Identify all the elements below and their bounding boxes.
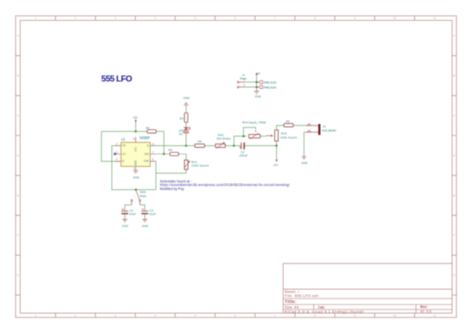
- capacitor C2 (series): [239, 143, 248, 158]
- wire RV3 top to R5: [277, 125, 306, 130]
- jack J2: [306, 124, 337, 135]
- svg-text:R5: R5: [286, 119, 290, 123]
- resistor R4: [195, 140, 205, 148]
- junction node TR/THR at SW1: [135, 189, 137, 191]
- title block: [283, 263, 452, 313]
- wire TR loop: [112, 146, 156, 190]
- connector J1: [237, 81, 245, 87]
- left/right ticks: [16, 56, 21, 295]
- junction node RV3 bottom (+9V): [275, 145, 277, 147]
- junction node OUT at C2/RV2: [233, 145, 235, 147]
- svg-text:D: D: [17, 154, 19, 157]
- wire vertical power rail: [256, 76, 258, 91]
- svg-text:NE555P: NE555P: [140, 136, 151, 140]
- svg-text:GND: GND: [255, 95, 261, 99]
- power +9V (555 rail): [133, 115, 138, 131]
- trim pot RV2: [216, 133, 232, 148]
- junction node DIS (R1/R2/pin7): [163, 153, 165, 155]
- svg-text:+9V: +9V: [273, 163, 278, 167]
- ground (C1): [122, 219, 128, 228]
- wire DIS to R2: [156, 154, 186, 160]
- svg-text:GND: GND: [122, 224, 128, 228]
- resistor R3: [180, 113, 188, 123]
- junction node RV4 wiper tie: [242, 135, 244, 137]
- svg-text:PWR_FLAG: PWR_FLAG: [264, 80, 278, 84]
- resistor R2: [169, 148, 179, 156]
- wire RV3 bottom to +9V: [276, 141, 278, 159]
- svg-text:GND: GND: [301, 161, 307, 165]
- ground (C3): [142, 219, 148, 228]
- svg-text:KiCad E.D.A. kicad 5.1.5+dfsg: KiCad E.D.A. kicad 5.1.5+dfsg1-2build2: [285, 310, 364, 314]
- svg-text:GND: GND: [136, 160, 138, 165]
- wire jack sleeve to GND: [304, 132, 306, 156]
- wire left drop to pin4: [101, 131, 121, 161]
- PWR_FLAG on +9V: [257, 80, 278, 84]
- wire J1 pin1 to rail: [246, 81, 257, 83]
- wire RV4 right to RV3 wiper: [260, 135, 266, 137]
- svg-text:RV4 Depth_TRIM: RV4 Depth_TRIM: [242, 121, 266, 125]
- wire VCC rail: [101, 130, 163, 132]
- junction node +9V at J1 pin1: [256, 81, 258, 83]
- svg-text:GND: GND: [183, 96, 189, 100]
- svg-text:+9V: +9V: [255, 71, 260, 75]
- junction node OUT at LED branch: [185, 145, 187, 147]
- power +9V (down): [273, 159, 278, 167]
- wire branch up to RV4: [234, 127, 256, 145]
- svg-text:C: C: [453, 115, 455, 118]
- svg-text:D1: D1: [179, 132, 183, 136]
- svg-text:Q: Q: [147, 145, 149, 148]
- power +9V (top): [255, 71, 260, 76]
- svg-text:VCC: VCC: [136, 146, 138, 151]
- svg-text:D: D: [453, 154, 455, 157]
- sheet note: source credit: [160, 180, 290, 191]
- svg-text:R: R: [122, 160, 124, 163]
- trim pot RV4 (Depth_TRIM): [242, 121, 266, 140]
- svg-text:Title:: Title:: [285, 299, 296, 304]
- svg-text:Size: A4: Size: A4: [285, 305, 299, 309]
- svg-text:555 LFO: 555 LFO: [101, 73, 132, 83]
- svg-text:Rev:: Rev:: [420, 305, 428, 309]
- svg-text:10k Shape: 10k Shape: [216, 137, 231, 141]
- wire SW1 right to C3: [140, 205, 145, 211]
- svg-text:THR: THR: [144, 160, 149, 163]
- svg-text:R3: R3: [180, 117, 184, 121]
- ground (inverted, LED branch): [183, 96, 189, 105]
- svg-text:G: G: [453, 274, 455, 277]
- svg-text:PWR_FLAG: PWR_FLAG: [264, 85, 278, 89]
- svg-text:TR: TR: [122, 145, 126, 148]
- svg-text:22uF: 22uF: [149, 212, 156, 216]
- wire THR loop: [156, 161, 186, 189]
- wire SW1 left to C1: [125, 205, 132, 211]
- svg-text:Rate: Rate: [140, 194, 147, 198]
- top/bottom ticks: [56, 16, 415, 20]
- wire Q out: [150, 145, 276, 147]
- svg-text:Id: 1/1: Id: 1/1: [420, 309, 432, 313]
- capacitor C3: [141, 208, 156, 219]
- wire R1 down to DIS: [163, 131, 165, 154]
- U1 pin names: [122, 145, 149, 166]
- capacitor C1: [121, 208, 136, 219]
- svg-text:100k Depth: 100k Depth: [280, 135, 297, 139]
- ground (jack): [301, 157, 307, 166]
- svg-text:+9V: +9V: [133, 115, 138, 119]
- junction node VCC at U1 pin8: [135, 130, 137, 132]
- svg-text:100k Speed: 100k Speed: [191, 164, 209, 168]
- wire J1 pin2 to rail: [246, 86, 257, 88]
- svg-text:CV: CV: [122, 153, 126, 156]
- U1 pin numbers: [116, 138, 154, 171]
- svg-text:U1: U1: [121, 138, 125, 142]
- svg-text:R2: R2: [169, 148, 173, 152]
- potentiometer RV3: [266, 130, 297, 141]
- resistor R5: [284, 119, 293, 127]
- svg-text:Date:: Date:: [318, 305, 325, 309]
- wire LED branch: [185, 105, 187, 146]
- LED D1: [179, 127, 191, 136]
- svg-text:G: G: [17, 274, 19, 277]
- junction node GND at J1 pin2: [256, 86, 258, 88]
- svg-text:AUX_MONO: AUX_MONO: [322, 128, 337, 132]
- no-connect CV: [114, 153, 116, 155]
- svg-text:File: 555-LFO.sch: File: 555-LFO.sch: [285, 294, 319, 298]
- svg-text:10uF: 10uF: [129, 212, 136, 216]
- svg-text:R4: R4: [198, 140, 202, 144]
- svg-text:GND: GND: [142, 224, 148, 228]
- resistor R1: [146, 126, 156, 133]
- PWR_FLAG on GND: [257, 85, 278, 89]
- ground (U1): [133, 171, 139, 180]
- potentiometer RV1: [184, 160, 209, 170]
- svg-text:Power: Power: [240, 77, 247, 81]
- svg-text:DIS: DIS: [145, 153, 150, 156]
- svg-text:GND: GND: [133, 175, 139, 179]
- svg-text:R1: R1: [146, 126, 150, 130]
- svg-text:Modified by Pop: Modified by Pop: [160, 187, 184, 191]
- switch SW1: [131, 190, 147, 205]
- svg-text:C: C: [17, 115, 19, 118]
- svg-text:220uF: 220uF: [239, 154, 248, 158]
- ground (below J1 rail): [254, 91, 261, 98]
- IC U1 NE555P: [121, 136, 150, 166]
- U1 pins: [115, 137, 156, 171]
